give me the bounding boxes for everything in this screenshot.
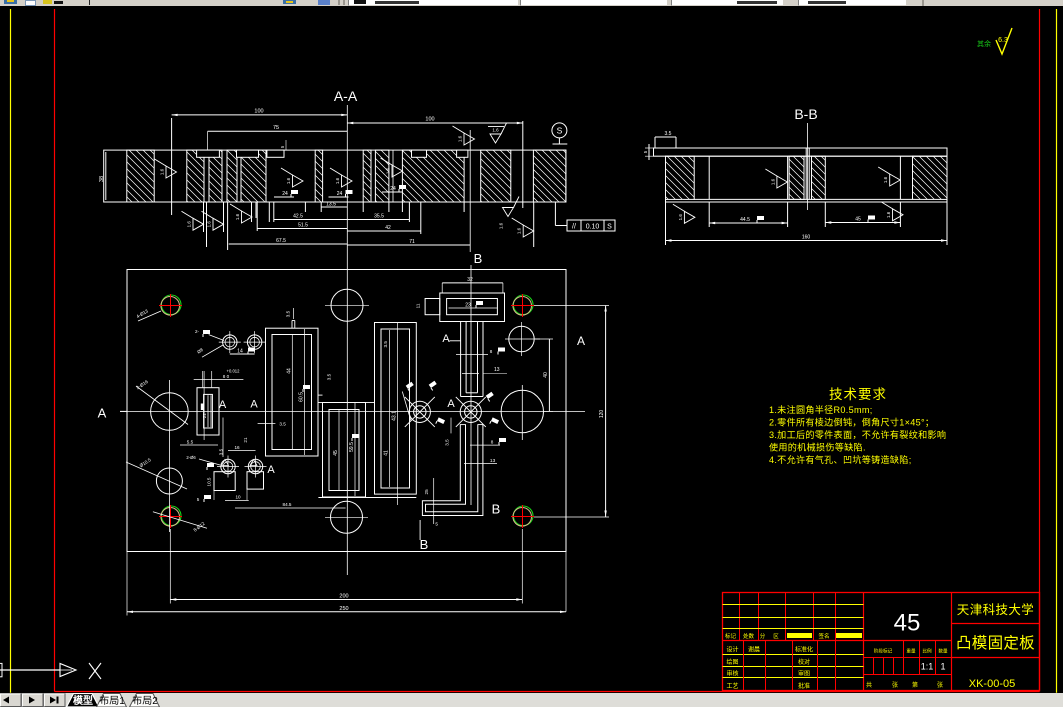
svg-text:S: S (557, 125, 563, 135)
svg-text:44.5: 44.5 (740, 217, 750, 223)
svg-text:5: 5 (197, 497, 200, 502)
svg-text:2.零件所有棱边倒钝，倒角尺寸1×45°；: 2.零件所有棱边倒钝，倒角尺寸1×45°； (769, 417, 934, 428)
svg-text:凸模固定板: 凸模固定板 (956, 634, 1035, 652)
svg-text:A: A (447, 398, 455, 410)
svg-text:张: 张 (937, 681, 943, 689)
svg-text:2-Ø6: 2-Ø6 (186, 455, 196, 460)
svg-text:天津科技大学: 天津科技大学 (957, 602, 1034, 617)
svg-text:批准: 批准 (798, 682, 810, 690)
svg-text:10: 10 (235, 495, 241, 500)
svg-text:45: 45 (894, 610, 921, 637)
svg-text:B-B: B-B (794, 106, 817, 122)
svg-text:B: B (474, 251, 483, 266)
svg-text:审核: 审核 (726, 670, 738, 678)
svg-text:+0.012: +0.012 (227, 369, 241, 374)
svg-text:标记: 标记 (725, 632, 737, 640)
svg-text:1.6: 1.6 (678, 214, 683, 221)
svg-text:A: A (267, 464, 275, 476)
svg-text:43.1: 43.1 (392, 411, 398, 421)
svg-text:44: 44 (287, 368, 293, 374)
svg-text:25: 25 (424, 489, 429, 495)
svg-text:60.5: 60.5 (299, 392, 305, 402)
svg-text:8-Ø12: 8-Ø12 (193, 521, 206, 533)
svg-text:5.5: 5.5 (187, 440, 194, 445)
svg-text:布局1: 布局1 (99, 695, 125, 707)
svg-text:Ø10.5: Ø10.5 (139, 457, 153, 468)
svg-text:数量: 数量 (938, 648, 948, 655)
svg-text:4-Ø13: 4-Ø13 (135, 308, 149, 319)
svg-text:13.5: 13.5 (326, 202, 336, 208)
svg-text:1.6: 1.6 (517, 227, 522, 234)
svg-text:1.6: 1.6 (499, 222, 504, 229)
svg-text:23: 23 (465, 303, 471, 309)
svg-text:45: 45 (855, 217, 861, 223)
svg-text:A: A (442, 333, 450, 345)
svg-text:8: 8 (491, 439, 494, 444)
svg-text:阶段标记: 阶段标记 (874, 648, 893, 655)
svg-text:4.不允许有气孔、凹坑等铸造缺陷;: 4.不允许有气孔、凹坑等铸造缺陷; (769, 454, 912, 465)
svg-text:21: 21 (243, 437, 248, 443)
svg-text:24: 24 (282, 191, 288, 197)
svg-text:3.5: 3.5 (279, 422, 286, 427)
svg-text:处数: 处数 (743, 632, 755, 640)
svg-text:16: 16 (234, 445, 240, 450)
svg-text:校对: 校对 (798, 658, 810, 666)
svg-text:42.5: 42.5 (293, 214, 303, 220)
svg-text:A: A (577, 334, 585, 348)
svg-text:模型: 模型 (73, 694, 93, 707)
svg-text:42: 42 (385, 225, 391, 231)
svg-text:32: 32 (467, 277, 473, 283)
svg-text:1.6: 1.6 (458, 135, 463, 142)
svg-text:设计: 设计 (726, 646, 738, 654)
svg-text:200: 200 (339, 594, 348, 600)
svg-text:共: 共 (866, 681, 872, 689)
svg-text:0.10: 0.10 (586, 224, 600, 231)
svg-text:1.6: 1.6 (207, 221, 212, 228)
svg-text:1.6: 1.6 (883, 176, 888, 183)
svg-text:13: 13 (494, 367, 500, 373)
svg-text:B: B (492, 502, 501, 517)
svg-text:1.6: 1.6 (160, 168, 165, 175)
svg-text:A: A (98, 406, 107, 421)
svg-text:51.5: 51.5 (298, 223, 308, 229)
svg-text:2-: 2- (195, 329, 200, 334)
svg-text:区: 区 (773, 633, 779, 640)
svg-text:1.6: 1.6 (286, 177, 291, 184)
svg-text:A-A: A-A (334, 88, 358, 104)
svg-text:A: A (250, 399, 258, 411)
svg-text:250: 250 (339, 606, 348, 612)
svg-text:其余: 其余 (977, 39, 991, 48)
svg-text:工艺: 工艺 (726, 682, 738, 690)
svg-text:8 0: 8 0 (223, 374, 230, 379)
svg-text:张: 张 (892, 681, 898, 689)
svg-text:第: 第 (912, 681, 918, 689)
svg-text:120: 120 (599, 410, 605, 419)
svg-text:1: 1 (940, 662, 945, 672)
svg-text:45: 45 (333, 450, 339, 456)
svg-text:谢晨: 谢晨 (748, 646, 760, 654)
svg-text:41: 41 (384, 450, 390, 456)
svg-text:24: 24 (390, 186, 396, 192)
svg-text:B: B (420, 537, 429, 552)
svg-text:1.6: 1.6 (235, 213, 240, 220)
svg-text:24: 24 (337, 191, 343, 197)
svg-text:A: A (219, 399, 227, 411)
svg-text:XK-00-05: XK-00-05 (969, 678, 1015, 690)
svg-text:Ø8: Ø8 (196, 347, 204, 355)
svg-text:3.5: 3.5 (665, 131, 672, 137)
svg-text:35.5: 35.5 (374, 214, 384, 220)
svg-text:标准化: 标准化 (795, 646, 813, 654)
svg-text:5: 5 (280, 145, 285, 148)
svg-text:审图: 审图 (798, 670, 810, 678)
svg-text:1.6: 1.6 (492, 128, 499, 133)
svg-text:比例: 比例 (922, 648, 932, 655)
svg-text:1.6: 1.6 (187, 221, 192, 228)
svg-text:3.加工后的零件表面，不允许有裂纹和影响: 3.加工后的零件表面，不允许有裂纹和影响 (769, 429, 946, 440)
svg-text:40: 40 (543, 372, 549, 378)
svg-text:5: 5 (643, 150, 648, 153)
svg-text:13: 13 (490, 458, 496, 464)
svg-text:3.5: 3.5 (327, 373, 332, 380)
svg-text:技术要求: 技术要求 (829, 387, 887, 402)
svg-text:21: 21 (202, 413, 207, 419)
svg-text:1.6: 1.6 (770, 178, 775, 185)
svg-text:10.5: 10.5 (206, 477, 211, 486)
svg-text:1.未注圆角半径R0.5mm;: 1.未注圆角半径R0.5mm; (769, 404, 873, 415)
svg-text:84.5: 84.5 (283, 502, 292, 507)
svg-text:1.6: 1.6 (886, 211, 891, 218)
svg-text:8: 8 (490, 349, 493, 354)
svg-text:使用的机械损伤等缺陷.: 使用的机械损伤等缺陷. (769, 441, 866, 452)
svg-text:75: 75 (273, 125, 279, 131)
svg-text:160: 160 (802, 235, 811, 241)
svg-text:绘图: 绘图 (726, 658, 738, 666)
svg-text:71: 71 (409, 239, 415, 245)
svg-text:布局2: 布局2 (132, 695, 158, 707)
svg-text:3.5: 3.5 (445, 439, 450, 446)
svg-text:14: 14 (237, 349, 243, 355)
svg-text://: // (572, 224, 576, 231)
svg-text:11: 11 (416, 303, 421, 308)
svg-text:67.5: 67.5 (276, 238, 286, 244)
svg-text:签名: 签名 (818, 632, 829, 640)
svg-text:38: 38 (99, 176, 105, 182)
svg-text:1.6: 1.6 (335, 177, 340, 184)
svg-text:重量: 重量 (906, 648, 916, 655)
svg-text:100: 100 (425, 117, 434, 123)
svg-text:5: 5 (435, 522, 438, 527)
svg-text:6.3: 6.3 (998, 37, 1008, 44)
svg-text:S: S (607, 224, 612, 231)
svg-text:1:1: 1:1 (921, 662, 934, 672)
svg-text:100: 100 (254, 109, 263, 115)
svg-text:2-Ø16: 2-Ø16 (135, 379, 149, 390)
svg-text:59.5: 59.5 (349, 442, 355, 452)
svg-text:1.6: 1.6 (386, 167, 391, 174)
svg-text:分: 分 (760, 632, 766, 640)
svg-text:3.5: 3.5 (383, 341, 388, 348)
svg-text:3.5: 3.5 (286, 310, 291, 317)
